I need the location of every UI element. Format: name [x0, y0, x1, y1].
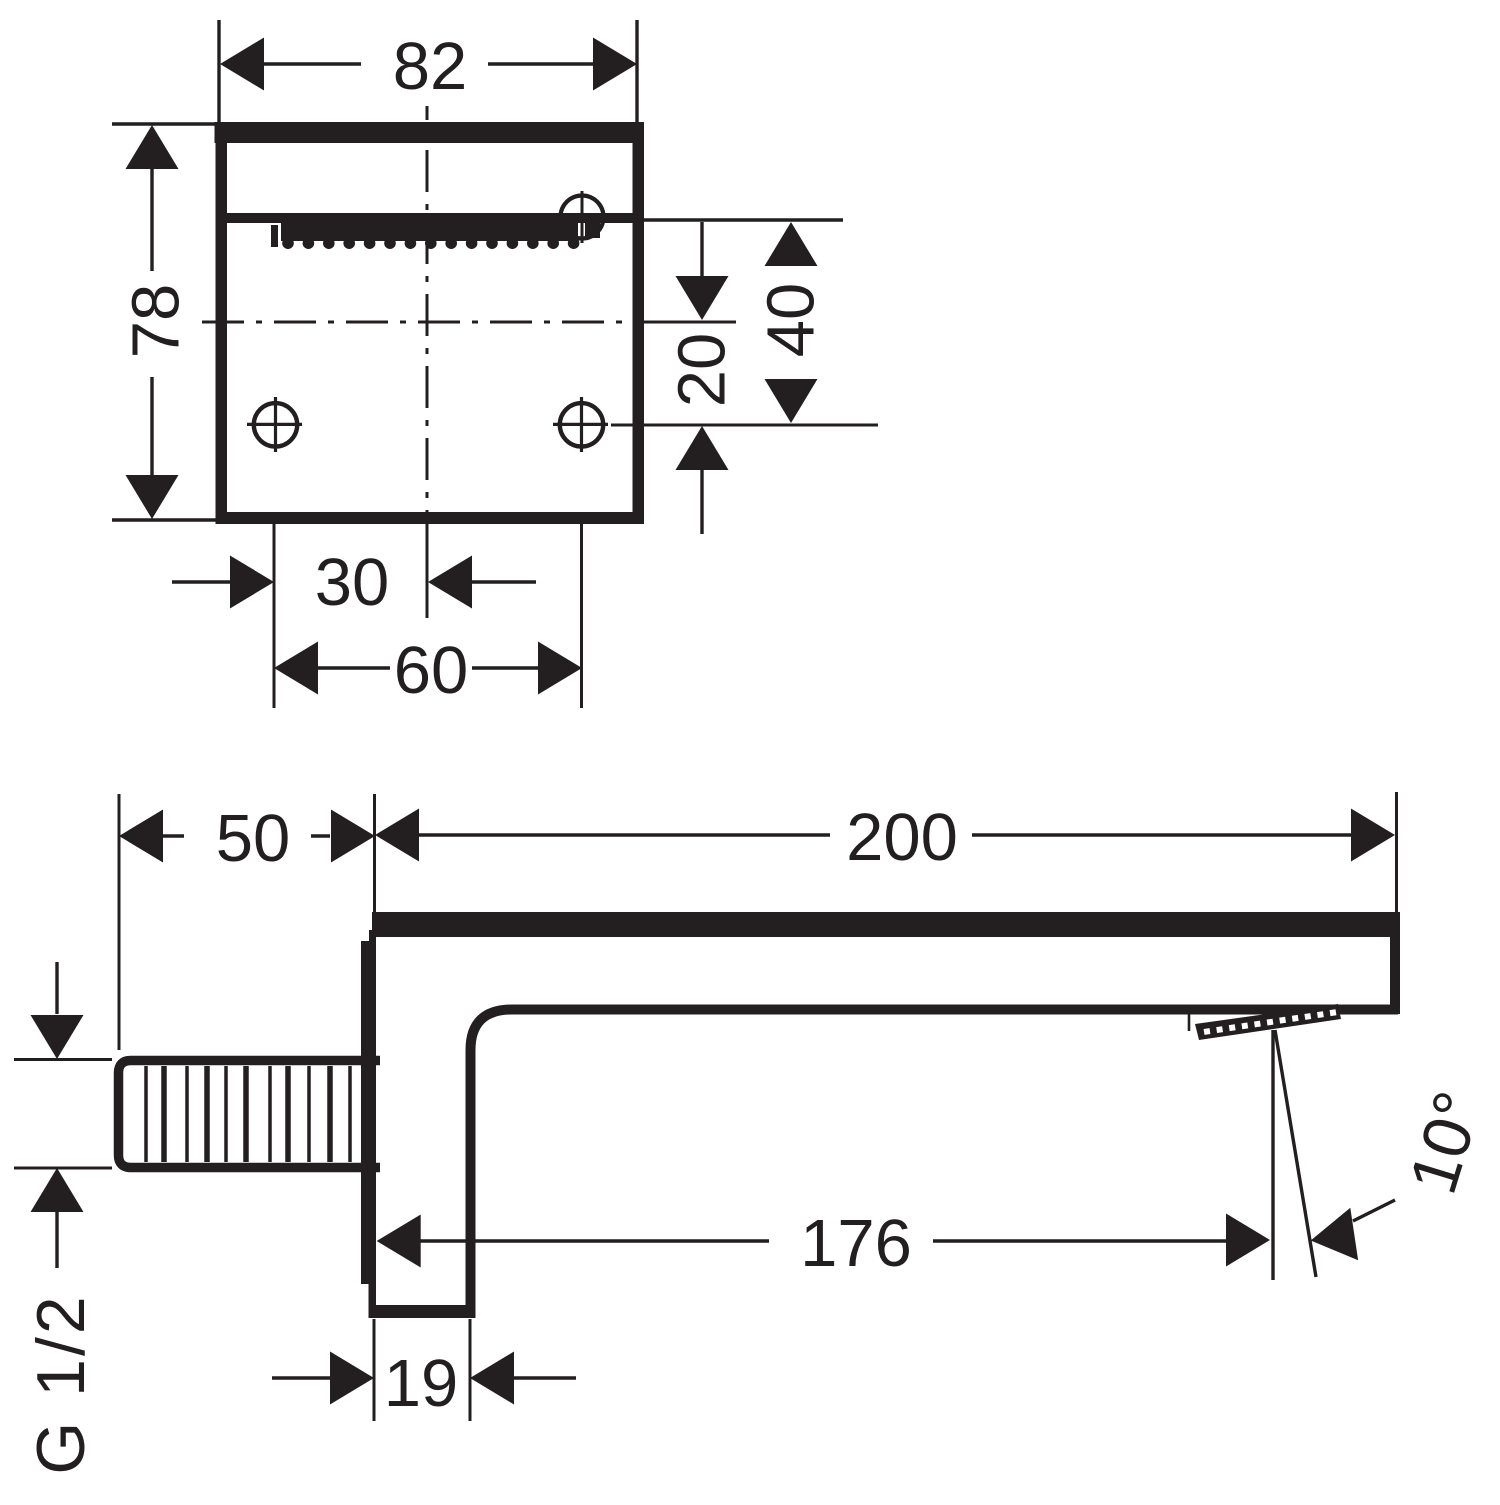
svg-text:50: 50 — [216, 801, 291, 876]
svg-text:20: 20 — [665, 333, 740, 408]
svg-text:78: 78 — [119, 284, 194, 359]
svg-text:82: 82 — [393, 29, 468, 104]
svg-text:30: 30 — [315, 545, 390, 620]
svg-text:200: 200 — [846, 800, 958, 875]
svg-text:176: 176 — [800, 1206, 912, 1281]
svg-text:G 1/2: G 1/2 — [23, 1293, 99, 1474]
svg-text:60: 60 — [394, 633, 469, 708]
svg-text:19: 19 — [384, 1346, 459, 1421]
svg-text:40: 40 — [754, 283, 829, 358]
